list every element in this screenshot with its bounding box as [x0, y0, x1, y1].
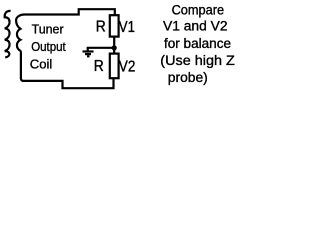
svg-text:V1: V1 — [119, 19, 135, 36]
svg-text:Tuner: Tuner — [32, 22, 65, 37]
svg-text:Compare: Compare — [172, 2, 225, 17]
svg-text:Output: Output — [31, 39, 66, 54]
svg-text:(Use high Z: (Use high Z — [160, 53, 235, 68]
svg-text:R: R — [96, 19, 106, 36]
svg-text:probe): probe) — [168, 70, 208, 85]
svg-text:V1 and V2: V1 and V2 — [163, 19, 228, 34]
svg-text:R: R — [94, 58, 104, 75]
svg-text:Coil: Coil — [30, 57, 53, 72]
svg-text:for balance: for balance — [164, 36, 231, 51]
svg-text:V2: V2 — [119, 59, 136, 76]
